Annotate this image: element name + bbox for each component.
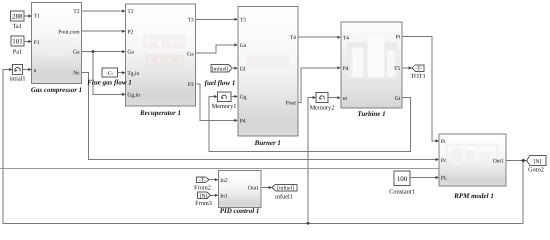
svg-text:Gas compressor 1: Gas compressor 1 — [31, 86, 82, 94]
from tag fuel flow 1 — [205, 65, 236, 88]
node junction Out1 — [522, 159, 525, 162]
block PID control 1 — [218, 171, 261, 216]
svg-text:Ga: Ga — [187, 51, 194, 57]
svg-text:PID control 1: PID control 1 — [220, 207, 260, 215]
block Memory2 — [310, 93, 335, 112]
svg-text:nt: nt — [343, 96, 348, 102]
wire T3 rec to burner — [196, 18, 235, 20]
goto tag Goto2 — [527, 156, 547, 174]
constant Ta1 — [11, 11, 25, 30]
svg-text:Gg,in: Gg,in — [127, 93, 140, 99]
svg-text:T3: T3 — [240, 17, 246, 23]
block RPM model 1 — [439, 134, 506, 200]
svg-text:Pout,com: Pout,com — [58, 29, 80, 35]
wire Memory1 to Gg — [231, 96, 235, 98]
wire T4 burner to turbine — [298, 36, 338, 38]
svg-text:Pc: Pc — [441, 158, 447, 164]
svg-text:Out1: Out1 — [493, 159, 504, 165]
svg-text:[mfuel]: [mfuel] — [212, 66, 229, 72]
wire P3 to burner P4 — [196, 84, 235, 121]
svg-text:Pout: Pout — [286, 101, 297, 107]
block initial1 — [9, 65, 25, 83]
wire echo artifact — [6, 218, 521, 220]
svg-text:Ta1: Ta1 — [13, 23, 22, 30]
svg-text:In1: In1 — [220, 194, 228, 200]
svg-text:mfuel1: mfuel1 — [275, 194, 293, 201]
svg-text:n: n — [34, 68, 37, 74]
svg-text:TOT1: TOT1 — [410, 73, 425, 80]
svg-text:Pt: Pt — [441, 139, 446, 145]
wire Pout to turbine P4 — [298, 68, 338, 103]
wire initial1 input arrow — [9, 68, 12, 71]
wire PID Out1 to mfuel1 — [261, 187, 270, 189]
svg-text:-T-: -T- — [199, 178, 206, 184]
wire N feedback bottom — [3, 70, 523, 224]
wire Memory1 input arrow — [214, 95, 217, 98]
svg-text:T4: T4 — [290, 35, 296, 41]
svg-text:Ga: Ga — [240, 43, 247, 49]
svg-text:RPM model 1: RPM model 1 — [453, 192, 494, 200]
svg-text:P2: P2 — [127, 29, 133, 35]
constant Flue gas flow 1 — [102, 68, 118, 77]
svg-text:[N]: [N] — [534, 159, 542, 165]
svg-text:T3: T3 — [187, 17, 193, 23]
wire Gt to Memory1 — [209, 97, 411, 152]
wire Ga rec to burner — [196, 45, 235, 53]
svg-text:P4: P4 — [240, 119, 246, 125]
svg-text:T4: T4 — [343, 36, 349, 42]
svg-text:Burner 1: Burner 1 — [254, 139, 281, 147]
svg-text:-T-: -T- — [415, 66, 422, 72]
wire Pa1 to P1 — [24, 41, 29, 43]
svg-text:fuel flow 1: fuel flow 1 — [205, 79, 236, 87]
svg-text:From3: From3 — [195, 200, 212, 207]
svg-text:Ga: Ga — [127, 50, 134, 56]
constant Pa1 — [11, 36, 24, 56]
wire Ta1 to T1 — [24, 15, 29, 17]
svg-text:Pa1: Pa1 — [13, 49, 22, 56]
svg-text:From2: From2 — [194, 184, 211, 191]
svg-text:P4: P4 — [343, 66, 349, 72]
wire C to Tg,in — [118, 72, 123, 74]
svg-text:[N]: [N] — [200, 193, 208, 199]
wire Constant1 to PL — [410, 177, 437, 179]
svg-text:Gt: Gt — [395, 96, 401, 102]
block Gas compressor 1 — [31, 2, 82, 94]
svg-text:T5: T5 — [394, 66, 400, 72]
wire From3 to In1 — [211, 194, 216, 196]
block Burner 1 — [238, 6, 298, 147]
svg-text:100: 100 — [397, 175, 408, 183]
constant Constant1 — [389, 171, 415, 196]
svg-text:Nc: Nc — [73, 71, 80, 77]
wire Pt arrow — [436, 139, 439, 142]
svg-text:[mfuel]: [mfuel] — [277, 186, 294, 192]
wire Ga branch to Gg,in — [93, 52, 123, 95]
wire T5 to TOT1 — [402, 67, 409, 69]
svg-text:Out1: Out1 — [248, 186, 259, 192]
node junction N-Memory2 — [307, 222, 310, 225]
wire Memory2 riser — [308, 98, 314, 224]
block Memory1 — [212, 92, 237, 110]
wire Memory2 to nt — [328, 97, 338, 99]
svg-text:intial1: intial1 — [9, 76, 25, 83]
svg-text:Gf: Gf — [240, 66, 246, 72]
goto tag mfuel1 — [272, 184, 297, 200]
svg-text:P3: P3 — [188, 82, 194, 88]
divider line — [0, 168, 439, 170]
svg-text:Flue gas flow 1: Flue gas flow 1 — [87, 79, 132, 87]
wire Ga to recuperator — [81, 51, 122, 53]
svg-text:Turbine 1: Turbine 1 — [357, 110, 385, 118]
svg-text:Recuperator 1: Recuperator 1 — [139, 109, 181, 117]
svg-text:Tg,in: Tg,in — [127, 71, 139, 77]
svg-text:-C-: -C- — [106, 71, 114, 77]
block Turbine 1 — [341, 22, 402, 118]
svg-text:Constant1: Constant1 — [389, 189, 415, 196]
svg-text:PL: PL — [441, 175, 448, 181]
wire From2 to In2 — [209, 179, 215, 181]
svg-text:Memory1: Memory1 — [212, 103, 237, 110]
svg-text:288: 288 — [12, 13, 23, 21]
wire T2 comp to recuperator — [81, 10, 122, 12]
wire Pout,com to P2 — [81, 30, 122, 32]
svg-text:T1: T1 — [34, 14, 40, 20]
svg-text:Ga: Ga — [73, 50, 80, 56]
wire Memory2 input arrow — [313, 96, 316, 99]
wire initial1 to n — [23, 69, 30, 71]
node Ga junction — [92, 50, 95, 53]
block Recuperator 1 — [126, 4, 196, 117]
wire mfuel to Gf — [232, 67, 235, 69]
from tag From2 — [194, 177, 211, 191]
svg-text:P1: P1 — [34, 40, 40, 46]
svg-text:101: 101 — [12, 38, 23, 46]
goto tag TOT1 — [410, 65, 425, 80]
from tag From3 — [195, 192, 212, 207]
svg-text:Memory2: Memory2 — [310, 105, 335, 112]
wire Pt to RPM — [402, 37, 436, 141]
svg-text:Pt: Pt — [396, 35, 401, 41]
svg-text:T2: T2 — [73, 9, 79, 15]
wire Nc to Pc — [81, 73, 436, 160]
svg-text:Goto2: Goto2 — [528, 167, 544, 174]
wire Out1 to Goto2 — [506, 160, 524, 162]
svg-text:T2: T2 — [127, 9, 133, 15]
wire Pc arrow — [436, 158, 439, 161]
svg-text:Gg: Gg — [240, 95, 247, 101]
svg-text:In2: In2 — [220, 178, 228, 184]
